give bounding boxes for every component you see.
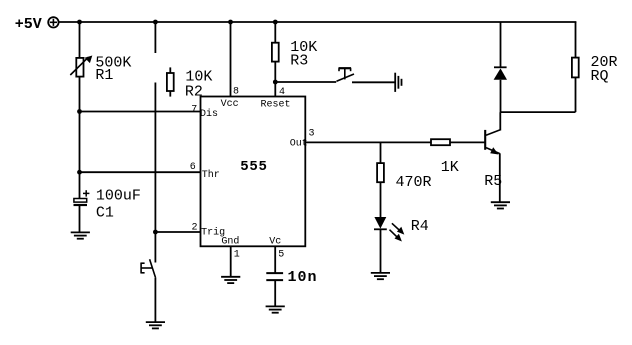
svg-text:Dis: Dis xyxy=(200,108,218,120)
pin label Reset xyxy=(261,99,291,110)
pin label Vc xyxy=(269,236,281,247)
ground below pin 1 xyxy=(221,277,240,283)
label 100uF xyxy=(96,188,141,205)
label 500K xyxy=(95,54,131,71)
wire RQ down to collector wire xyxy=(575,77,577,112)
label 10K (R3) xyxy=(290,39,317,56)
wire pin 5 to C2 xyxy=(274,246,276,273)
pin label Vcc xyxy=(221,99,239,110)
push button S1 trigger xyxy=(141,259,156,278)
wire R1 to node A xyxy=(79,77,81,112)
wire 1K to base xyxy=(450,141,485,143)
node junction dot pin7/R1 xyxy=(77,109,82,114)
wire pin 3 Out xyxy=(305,141,431,143)
transistor Q1 xyxy=(485,130,500,155)
svg-text:R1: R1 xyxy=(95,67,113,84)
label 555 xyxy=(240,159,267,175)
wire pin 8 Vcc from rail xyxy=(230,22,232,97)
label R2 xyxy=(185,83,203,100)
resistor 470R xyxy=(377,163,384,182)
label 10K (R2) xyxy=(185,69,212,86)
label R5 xyxy=(484,173,502,190)
svg-text:470R: 470R xyxy=(396,174,432,191)
svg-text:Gnd: Gnd xyxy=(221,235,239,247)
capacitor C2 10n xyxy=(266,273,283,280)
ground below C1 xyxy=(71,232,90,238)
+5V supply terminal symbol xyxy=(48,17,58,27)
pin number 3 xyxy=(309,128,315,139)
resistor R2 10K xyxy=(167,67,174,96)
pin number 7 xyxy=(191,104,197,115)
svg-text:100uF: 100uF xyxy=(96,188,141,205)
svg-text:1K: 1K xyxy=(441,159,459,176)
capacitor C1 100uF polarized xyxy=(74,190,90,205)
wire rail down to diode xyxy=(500,22,502,68)
pin label Out xyxy=(290,138,308,149)
svg-text:4: 4 xyxy=(279,87,285,98)
ground right of reset switch xyxy=(395,73,401,92)
wire node B to C1 xyxy=(79,172,81,198)
pin label Thr xyxy=(202,169,220,181)
svg-text:+5V: +5V xyxy=(15,16,42,33)
wire C1 to ground xyxy=(79,206,81,232)
ground below C2 xyxy=(266,306,285,312)
svg-text:2: 2 xyxy=(192,222,198,233)
svg-text:3: 3 xyxy=(309,128,315,139)
wire top supply rail xyxy=(59,21,577,23)
wire rail down to RQ xyxy=(575,22,577,58)
svg-text:R3: R3 xyxy=(290,53,308,70)
wire rail down trigger branch upper xyxy=(154,22,156,53)
diode D1 xyxy=(494,67,507,80)
wire reset node to pin 4 xyxy=(274,82,276,97)
wire R3 to reset node xyxy=(274,62,276,82)
svg-text:Reset: Reset xyxy=(261,99,291,110)
pin number 5 xyxy=(278,250,284,261)
label 470R xyxy=(396,174,432,191)
svg-text:10n: 10n xyxy=(288,269,318,286)
node junction dot rail/R1 xyxy=(77,20,82,25)
wire switch to ground right xyxy=(352,81,395,83)
node junction dot pin6/C1 xyxy=(77,170,82,175)
svg-text:7: 7 xyxy=(191,104,197,115)
wire emitter to ground xyxy=(499,153,501,202)
wire C2 to ground xyxy=(274,280,276,306)
node junction dot rail/trigger branch xyxy=(153,20,158,25)
label R1 xyxy=(95,67,113,84)
wire reset node to switch xyxy=(275,81,336,83)
svg-text:1: 1 xyxy=(234,250,240,261)
label R4 xyxy=(411,218,429,235)
label RQ xyxy=(591,68,609,85)
wire LED to ground xyxy=(380,229,382,273)
wire pin 7 Dis xyxy=(80,111,201,113)
pin number 8 xyxy=(233,86,239,97)
wire 470R to LED xyxy=(380,182,382,217)
pin number 2 xyxy=(192,222,198,233)
pin number 1 xyxy=(234,250,240,261)
resistor R1 variable 500K xyxy=(70,56,92,77)
svg-text:555: 555 xyxy=(240,159,267,175)
wire collector up xyxy=(499,112,501,130)
svg-text:Vcc: Vcc xyxy=(221,99,239,110)
wire pin 1 to ground xyxy=(230,246,232,276)
wire rail to R1 xyxy=(79,22,81,58)
svg-text:RQ: RQ xyxy=(591,68,609,85)
svg-text:6: 6 xyxy=(190,162,196,173)
svg-text:Vc: Vc xyxy=(269,236,281,247)
wire trig node to switch xyxy=(154,232,156,263)
label 1K xyxy=(441,159,459,176)
svg-text:C1: C1 xyxy=(96,205,114,222)
node junction dot reset xyxy=(273,80,278,85)
svg-text:8: 8 xyxy=(233,86,239,97)
label 20R xyxy=(591,54,618,71)
svg-text:5: 5 xyxy=(278,250,284,261)
resistor RQ 20R xyxy=(572,58,579,78)
pin label Trig xyxy=(201,226,225,238)
wire switch to ground xyxy=(154,278,156,322)
resistor R3 10K xyxy=(272,43,279,62)
pin number 6 xyxy=(190,162,196,173)
wire pin 6 Thr xyxy=(80,171,201,173)
label C1 xyxy=(96,205,114,222)
+5V label xyxy=(15,16,42,33)
wire pin 2 Trig xyxy=(155,231,200,233)
LED R4 xyxy=(374,217,404,242)
pin label Dis xyxy=(200,108,218,120)
label 10n xyxy=(288,269,318,286)
label R3 xyxy=(290,53,308,70)
ground below LED xyxy=(371,273,390,279)
ground below push button xyxy=(146,322,165,328)
pin label Gnd xyxy=(221,235,239,247)
pin number 4 xyxy=(279,87,285,98)
node junction dot rail/pin8 xyxy=(228,20,233,25)
node junction dot rail/R3 xyxy=(273,20,278,25)
ground below emitter xyxy=(491,202,510,208)
wire out node to 470R xyxy=(380,142,382,163)
wire node A to node B xyxy=(79,112,81,173)
node junction dot trig xyxy=(153,230,158,235)
wire trigger branch lower xyxy=(154,83,156,233)
op-amp U1 555 timer IC box xyxy=(201,97,306,247)
resistor R6 1K horizontal xyxy=(431,139,450,145)
wire diode to collector node xyxy=(500,80,502,112)
svg-text:Out: Out xyxy=(290,138,308,149)
push button S2 reset xyxy=(337,68,355,81)
svg-text:Thr: Thr xyxy=(202,169,220,181)
svg-text:R4: R4 xyxy=(411,218,429,235)
wire rail to R3 xyxy=(274,22,276,43)
wire collector node to RQ branch xyxy=(501,111,576,113)
